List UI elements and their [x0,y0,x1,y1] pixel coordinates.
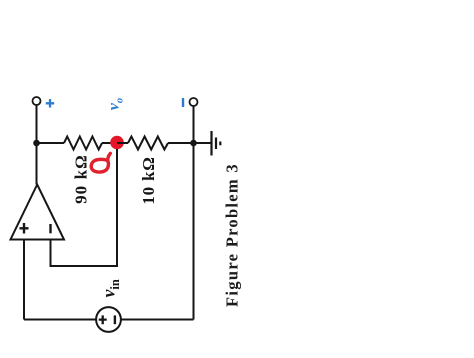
op-amp - input label (rotated minus) [49,224,51,233]
node: right junction [190,140,197,147]
wire: node a to resistor R2 [117,142,128,144]
source + mark [99,315,107,324]
wire: left node to resistor R1 [37,142,65,144]
node a (red dot, v_o node) [110,136,124,150]
node: left junction [33,140,40,147]
op-amp U1 (rotated, apex up) [11,185,65,240]
source - mark (rotated minus) [114,315,116,324]
svg-text:90 kΩ: 90 kΩ [72,154,91,204]
label a (red handwritten) [91,153,110,172]
wire: left node down to op-amp output (apex) [36,143,38,185]
wire: bottom rail left of source [24,319,96,321]
wire: R1 to node a [102,142,117,144]
ground [194,142,212,144]
terminal + (open circle) [33,97,41,105]
terminal - (open circle) [190,98,198,106]
wire: - terminal down through right node to bottom rail [193,106,195,320]
source v_in (circle) [96,307,121,332]
svg-text:10 kΩ: 10 kΩ [139,156,158,204]
svg-text:Figure Problem 3: Figure Problem 3 [223,163,242,307]
wire: bottom rail right of source [121,319,194,321]
wire: - input feedback: down, right, up to node a [51,149,118,266]
label - (blue minus, rotated) [182,98,184,107]
op-amp + input label [20,223,29,234]
resistor 10 kOhm [128,137,168,150]
resistor 90 kOhm [64,137,102,150]
wire: + terminal to left node [36,105,38,143]
label + (blue) [46,99,54,107]
wire: R2 to right node [168,142,194,144]
wire: + input down to bottom rail [23,240,25,320]
